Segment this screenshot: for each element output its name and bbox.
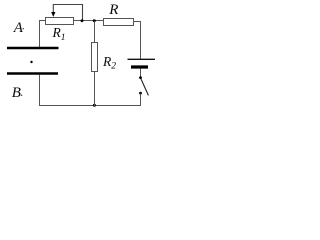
switch blade (open) xyxy=(141,79,148,95)
switch upper contact dot xyxy=(139,76,142,79)
svg-text:R2: R2 xyxy=(102,54,116,72)
battery negative thick plate xyxy=(131,65,148,68)
node dot (R2 branch bottom) xyxy=(93,104,96,107)
wire from R1 to R xyxy=(74,20,104,22)
wire switch to bottom wire xyxy=(140,94,142,107)
battery positive long plate xyxy=(128,58,156,60)
wire R2 branch upper (top node down to R2) xyxy=(94,21,96,43)
wire left vertical upper (node to top capacitor plate) xyxy=(39,20,41,48)
wire left vertical lower (bottom plate to bottom wire) xyxy=(39,75,41,107)
resistor R xyxy=(104,19,134,26)
svg-text:B: B xyxy=(12,85,21,101)
node dot (R2 branch top) xyxy=(93,19,96,22)
rheostat slider arrow head xyxy=(51,12,55,17)
resistor R1 (rheostat body) xyxy=(46,18,74,25)
wire R2 branch lower (R2 down to bottom wire) xyxy=(94,72,96,107)
svg-text:A: A xyxy=(13,20,24,36)
label A tiny dot xyxy=(23,28,24,29)
wire from R to right corner and down to battery xyxy=(134,22,142,60)
capacitor bottom plate B xyxy=(7,72,58,74)
resistor R2 xyxy=(92,43,98,72)
capacitor top plate A xyxy=(7,47,59,49)
switch lower contact dot xyxy=(139,92,142,95)
wire battery to switch xyxy=(140,69,142,77)
junction dot (slider tap joins wire) xyxy=(81,19,84,22)
svg-text:R1: R1 xyxy=(52,25,66,43)
bottom wire xyxy=(39,105,141,107)
label B tiny dot xyxy=(21,95,22,96)
wire top-left horizontal from left branch to rheostat xyxy=(39,20,46,22)
svg-text:R: R xyxy=(108,2,118,18)
wire rheostat slider loop (arrow shaft + top loop + descent to tap junction) xyxy=(53,5,82,21)
charged particle dot between plates xyxy=(30,61,32,63)
